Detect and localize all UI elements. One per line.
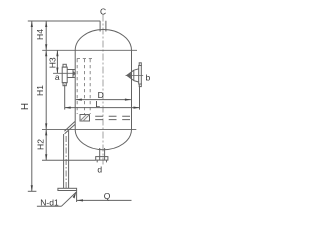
flange a weld tip — [73, 72, 75, 75]
extension line d-flange level — [42, 159, 96, 161]
flange b cone — [127, 69, 139, 82]
arrow H2 bottom — [45, 154, 47, 160]
svg-text:L: L — [95, 99, 100, 109]
svg-text:H2: H2 — [35, 139, 45, 150]
leg centerline — [65, 136, 67, 188]
arrow D right — [125, 99, 131, 101]
arrow H4 top — [45, 21, 47, 27]
svg-text:Q: Q — [104, 191, 111, 201]
arrow H1 top — [45, 50, 47, 56]
internal hatched block — [80, 115, 90, 122]
flange b centerline — [126, 74, 144, 76]
leader N-d1 diagonal — [62, 192, 77, 206]
flange b bolt top — [139, 63, 141, 66]
flange b plate — [139, 66, 142, 85]
arrow N-d1 leader — [73, 192, 77, 198]
flange a bolt top — [63, 64, 66, 67]
centerline vessel vertical — [102, 15, 104, 167]
arrows — [31, 21, 140, 202]
dimension L line — [65, 107, 140, 109]
leg gusset — [64, 122, 75, 134]
top head — [75, 29, 131, 50]
leg column — [64, 131, 69, 189]
dimension D line — [76, 99, 131, 101]
nozzle d flange — [96, 157, 108, 161]
tangent line bottom — [42, 128, 136, 130]
nozzle d bolts — [97, 160, 106, 162]
internal pipe dashed wall left — [76, 59, 78, 114]
flange a neck — [67, 70, 75, 78]
L extension line left — [64, 84, 66, 109]
svg-text:d: d — [97, 165, 102, 175]
flange a bolt bottom — [63, 83, 66, 86]
arrow H top — [31, 21, 33, 27]
svg-text:H4: H4 — [35, 29, 45, 40]
arrow Q left — [77, 199, 83, 201]
leader N-d1 underline — [37, 205, 62, 207]
nozzle d pipe — [100, 148, 105, 160]
bottom head — [75, 129, 131, 149]
arrow H4 bottom — [45, 44, 47, 50]
nozzle C — [100, 21, 106, 32]
dimension H line — [31, 21, 33, 191]
internal pipe dashed wall right — [89, 59, 91, 114]
arrow H bottom — [31, 185, 33, 191]
arrow L right — [134, 107, 140, 109]
internal pipe dashed wall mid — [84, 59, 86, 114]
L extension line right — [139, 86, 141, 110]
Q extension tick — [76, 191, 78, 203]
flange b bolt bottom — [139, 84, 141, 87]
svg-text:b: b — [146, 72, 151, 82]
nozzle a centerline — [53, 72, 75, 74]
extension line base bottom — [28, 190, 37, 192]
internal pipe dashed top — [77, 58, 93, 60]
dimension H3 line — [56, 50, 58, 73]
flange a plate — [62, 67, 67, 83]
svg-text:H1: H1 — [35, 85, 45, 96]
arrow H3 bottom — [56, 68, 58, 74]
svg-text:a: a — [55, 72, 60, 82]
svg-text:H3: H3 — [48, 57, 58, 68]
svg-text:C: C — [100, 7, 106, 17]
tangent line top — [42, 49, 137, 51]
arrow D left — [76, 99, 82, 101]
arrow H2 top — [45, 129, 47, 135]
shell left wall — [74, 50, 76, 129]
extension line top (y=21) — [28, 20, 100, 22]
svg-text:N-d1: N-d1 — [40, 197, 59, 207]
dimension Q line — [77, 199, 132, 201]
dimension H4/H1/H2 line — [45, 21, 47, 160]
flange b cone tip — [127, 74, 131, 78]
svg-text:H: H — [20, 103, 31, 110]
arrow H1 bottom — [45, 123, 47, 129]
arrow L left — [65, 107, 71, 109]
shell right wall — [131, 50, 133, 129]
base plate — [58, 188, 77, 190]
arrow H3 top — [56, 50, 58, 56]
internal baffle dashed double line — [95, 116, 130, 119]
